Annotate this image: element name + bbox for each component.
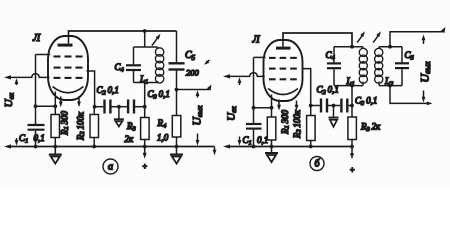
tube anode plate (б)	[276, 40, 291, 50]
bottom rail terminal arrow (а)	[4, 144, 11, 148]
resistor R4 (а)	[172, 90, 181, 147]
capacitor C1 (а)	[28, 125, 45, 147]
capacitor C1 (б)	[246, 124, 262, 147]
label Uвх (б)	[226, 106, 238, 121]
wire cathode connector (а)	[34, 104, 58, 108]
wire plate lead (а)	[87, 71, 95, 107]
svg-text:2к: 2к	[125, 134, 135, 144]
bottom rail terminal arrow (б)	[223, 144, 230, 148]
wire output top link (б)	[390, 32, 443, 47]
tube grid row 2 (б)	[269, 68, 297, 70]
wire upper grid lead (б)	[254, 56, 266, 58]
output terminal bottom arrow (б)	[427, 102, 433, 106]
variable inductor arrow (а)	[152, 34, 161, 46]
resistor R1 (а)	[51, 115, 60, 147]
supply terminal plus (а)	[142, 147, 147, 172]
wire cathode lead (а)	[54, 92, 56, 115]
wire tank bottom drop (б)	[350, 86, 354, 108]
wire cathode lead (б)	[271, 95, 273, 118]
wire tank bottom drop (а)	[143, 83, 147, 109]
label C4 (б)	[326, 50, 336, 62]
capacitor C2 (б)	[321, 99, 327, 113]
wire C3 to node (б)	[348, 105, 352, 107]
label C3 0,1 (б)	[355, 96, 377, 108]
node input arrow down (Uвх dim, а)	[15, 138, 19, 146]
label R4 (а)	[157, 118, 168, 130]
wire C5 branch (а)	[176, 31, 178, 62]
supply terminal plus (б)	[350, 147, 355, 175]
svg-text:Uвых: Uвых	[191, 105, 203, 126]
svg-text:C3 0,1: C3 0,1	[355, 96, 377, 108]
svg-text:C3 0,1: C3 0,1	[148, 89, 170, 101]
label R2 100к (б)	[292, 109, 303, 139]
label R1 300 (а)	[60, 110, 71, 136]
wire rail to tank drop (а)	[144, 31, 146, 47]
capacitor C4 (а)	[126, 47, 141, 83]
tube grid row 3 (б)	[269, 78, 297, 80]
ground under R4 (а)	[170, 147, 183, 164]
wire output bottom link (б)	[390, 86, 429, 104]
wire tank top left (б)	[334, 45, 363, 49]
svg-text:R3 2к: R3 2к	[360, 122, 381, 134]
wire top rail (а)	[69, 29, 177, 36]
node input arrow up (Uвх dim, а)	[15, 78, 19, 85]
dim arrow Uвых bottom (а)	[196, 134, 200, 146]
wire grid branch vertical (а)	[35, 55, 37, 125]
svg-text:200: 200	[186, 68, 200, 78]
wire input top (а)	[10, 74, 50, 78]
label L1 (б)	[346, 76, 355, 88]
svg-text:L1: L1	[346, 76, 355, 88]
label C2 0,1 (а)	[97, 85, 119, 97]
heater lead right with arrow (б)	[295, 101, 299, 111]
resistor R1 (б)	[267, 117, 276, 147]
svg-text:Л: Л	[252, 35, 261, 46]
heater lead left with arrow (б)	[277, 100, 281, 111]
resistor R3 (б)	[348, 106, 357, 147]
svg-text:б: б	[314, 158, 320, 169]
label R4 value 1,0 (а)	[157, 133, 169, 143]
svg-text:R2 100к: R2 100к	[76, 111, 87, 141]
label C1 value 0,1 (б)	[257, 135, 268, 145]
heater lead left with arrow (а)	[59, 97, 63, 108]
wire tank top right (б)	[379, 45, 402, 49]
svg-text:C1: C1	[243, 135, 252, 147]
svg-text:Л: Л	[32, 33, 41, 44]
wire top rail (б)	[283, 33, 352, 47]
wire screen wire (б)	[309, 104, 320, 108]
tube cathode arc (б)	[268, 89, 298, 95]
capacitor C5 (б)	[395, 47, 409, 86]
label C5 (б)	[405, 50, 415, 62]
svg-text:0,1: 0,1	[34, 133, 45, 143]
rail end arrow (а)	[213, 147, 217, 156]
inductor L1 (а)	[155, 47, 163, 83]
label R3 value 2к (а)	[125, 134, 135, 144]
label Л (б)	[252, 35, 261, 46]
ground mid (а)	[114, 107, 124, 127]
wire tank bottom left (б)	[334, 84, 363, 88]
tube Л envelope (а)	[48, 36, 88, 100]
label circled а	[103, 159, 118, 174]
capacitor C2 (а)	[105, 100, 111, 114]
wire input top (б)	[229, 73, 265, 77]
label C3 0,1 (а)	[148, 89, 170, 101]
wire upper grid lead (а)	[36, 54, 51, 56]
variable inductor arrow L2 (б)	[373, 31, 381, 42]
dim arrow Uвых top (а)	[196, 90, 200, 97]
tube grid row 1 (а)	[54, 55, 83, 57]
dim arrow Uвых bottom (б)	[422, 91, 426, 103]
capacitor C4 (б)	[327, 47, 341, 86]
tube Л envelope (б)	[264, 40, 303, 101]
svg-text:L1: L1	[139, 74, 148, 86]
output terminal top arrow (б)	[441, 27, 446, 33]
tube grid row 2 (а)	[54, 67, 83, 69]
tube cathode arc (а)	[53, 87, 84, 93]
wire bottom rail (б)	[229, 145, 354, 149]
label R3 (а)	[126, 121, 137, 133]
svg-text:R1 300: R1 300	[60, 110, 71, 136]
label C1 (б)	[243, 135, 252, 147]
label R2 100к (а)	[76, 111, 87, 141]
trimmer arrow C5 (а)	[204, 60, 210, 65]
label L1 (а)	[139, 74, 148, 86]
wire bottom rail (а)	[10, 145, 215, 149]
variable inductor arrow L1 (б)	[357, 31, 365, 42]
wire between C2 C3 (а)	[112, 105, 128, 109]
tube grid row 1 (б)	[269, 57, 297, 59]
svg-text:+: +	[142, 162, 147, 171]
capacitor C5 (а)	[169, 63, 185, 89]
svg-text:1,0: 1,0	[157, 133, 169, 143]
input terminal top (а)	[4, 75, 11, 79]
tube grid row 3 (а)	[54, 77, 83, 79]
svg-text:Uвх: Uвх	[226, 106, 238, 121]
label C4 (а)	[115, 62, 125, 74]
svg-text:C2 0,1: C2 0,1	[97, 85, 119, 97]
wire screen wire (а)	[93, 105, 104, 109]
wire output stub top (а)	[175, 88, 210, 92]
wire tank bottom (а)	[134, 82, 158, 84]
label circled б	[310, 157, 324, 171]
svg-text:R4: R4	[157, 118, 168, 130]
capacitor C3 (б)	[341, 99, 347, 113]
svg-text:+: +	[350, 166, 355, 175]
heater lead right with arrow (а)	[77, 97, 81, 108]
label C1 value 0,1 (а)	[34, 133, 45, 143]
capacitor C3 (а)	[128, 100, 134, 114]
wire between C2 C3 (б)	[328, 104, 340, 108]
input terminal top (б)	[223, 74, 230, 78]
label Uвх (а)	[3, 92, 15, 107]
dim arrow Uвых top (б)	[422, 35, 426, 45]
wire cathode connector (б)	[252, 106, 274, 110]
wire grid branch vertical (б)	[253, 57, 255, 123]
svg-text:C5: C5	[405, 50, 415, 62]
label C5 (а)	[185, 50, 196, 62]
SECTION A	[3, 29, 216, 174]
label Uвых (б)	[417, 61, 431, 83]
label R3 2к (б)	[360, 122, 381, 134]
ground under R1 (б)	[265, 147, 278, 163]
resistor R2 (а)	[90, 107, 99, 147]
node input arrow up (Uвх dim, б)	[238, 77, 242, 85]
output terminal top arrow (а)	[207, 85, 212, 91]
label L2 (б)	[384, 76, 394, 88]
svg-text:Uвх: Uвх	[3, 92, 15, 107]
label C5 value 200 (а)	[186, 68, 200, 78]
ground mid (б)	[329, 106, 339, 127]
wire C3 to node (а)	[135, 106, 145, 108]
node input arrow down (Uвх dim, б)	[238, 137, 242, 146]
resistor R3 (а)	[141, 107, 150, 147]
inductor L2 (б)	[375, 47, 383, 86]
svg-text:C2 0,1: C2 0,1	[317, 85, 339, 97]
inductor L1 (б)	[359, 47, 367, 86]
svg-text:C1: C1	[19, 133, 28, 145]
label R1 300 (б)	[280, 109, 291, 135]
wire tank bottom right (б)	[379, 84, 402, 88]
label Л (а)	[32, 33, 41, 44]
svg-text:R3: R3	[126, 121, 137, 133]
svg-text:R2 100к: R2 100к	[292, 109, 303, 139]
label C1 (а)	[19, 133, 28, 145]
ground under R1 (а)	[49, 147, 62, 164]
svg-text:R1 300: R1 300	[280, 109, 291, 135]
resistor R2 (б)	[307, 106, 316, 147]
tube anode plate (а)	[58, 36, 73, 47]
wire plate lead (б)	[302, 69, 311, 106]
label Uвых (а)	[191, 105, 203, 126]
wire tank top (а)	[134, 46, 158, 48]
svg-text:C5: C5	[185, 50, 196, 62]
svg-text:Uвых: Uвых	[417, 61, 431, 83]
svg-text:а: а	[108, 161, 113, 172]
SECTION B	[223, 27, 446, 175]
svg-text:C4: C4	[115, 62, 125, 74]
label C2 0,1 (б)	[317, 85, 339, 97]
